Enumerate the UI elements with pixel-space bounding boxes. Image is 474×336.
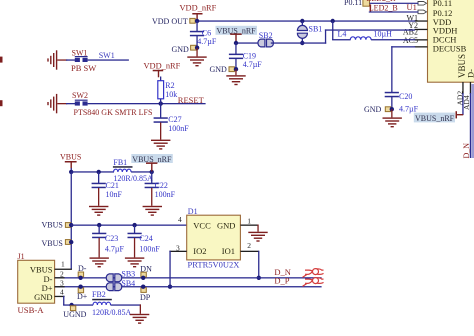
svg-text:4.7µF: 4.7µF <box>197 37 217 46</box>
wire gnd to SW1 <box>66 59 75 60</box>
ferrite bead FB1 core bar <box>113 166 133 168</box>
svg-text:R2: R2 <box>165 81 174 90</box>
ferrite bead FB1 coil <box>114 169 132 172</box>
ground (FB2) <box>130 314 149 324</box>
junction VBUS rail lower port <box>69 240 73 244</box>
junction VBUS_nRF C19 <box>234 41 238 45</box>
wire pin4 corner <box>63 296 64 306</box>
junction DP port <box>141 285 145 289</box>
svg-text:VCC: VCC <box>193 220 211 230</box>
ground (C6) <box>187 56 206 66</box>
highlight band right edge <box>471 84 474 158</box>
port GND (C19) pad <box>229 67 234 72</box>
power port VDD_nRF (R2) <box>144 61 181 77</box>
wire P0.11 <box>370 3 419 4</box>
switch SW1 <box>75 56 88 62</box>
capacitor C27 stem bottom <box>160 123 161 140</box>
D1 pin 3 wire <box>169 251 186 252</box>
pin VDD (W1) <box>415 20 428 21</box>
svg-text:SB3: SB3 <box>121 270 135 279</box>
J1 pin 4 wire <box>55 296 65 297</box>
svg-text:D-: D- <box>466 69 474 78</box>
svg-text:LED2_B: LED2_B <box>369 4 398 13</box>
ferrite bead FB2 core bar <box>92 299 112 301</box>
wire VDD main <box>196 20 415 21</box>
svg-text:GND: GND <box>217 220 235 230</box>
svg-text:4.7µF: 4.7µF <box>399 105 419 114</box>
capacitor C27 stem top <box>160 104 161 119</box>
ground stem (D1) <box>257 225 258 232</box>
svg-text:GND: GND <box>210 65 228 74</box>
junction D+ port <box>78 285 82 289</box>
svg-text:SB2: SB2 <box>259 31 273 40</box>
junction C22 <box>150 170 154 174</box>
capacitor C19 stem bottom <box>235 59 236 69</box>
svg-text:D+: D+ <box>77 292 88 301</box>
capacitor C23 <box>92 233 106 239</box>
wire gnd to SW2 <box>66 103 75 104</box>
capacitor C22 stem top <box>151 172 152 184</box>
svg-text:C23: C23 <box>105 234 118 243</box>
resistor R2 <box>158 81 164 99</box>
svg-text:IO1: IO1 <box>222 246 235 256</box>
svg-text:RESET: RESET <box>178 95 205 105</box>
capacitor C23 stem bottom <box>99 238 100 257</box>
svg-text:DECUSB: DECUSB <box>433 44 467 54</box>
capacitor C21 stem bottom <box>98 188 99 206</box>
ground left (SW2) <box>47 94 57 113</box>
ground stem (C6) <box>196 48 197 57</box>
wire FB1 to C22 <box>131 171 152 172</box>
svg-text:2: 2 <box>247 241 251 250</box>
port DP pad <box>141 288 146 293</box>
ground stem (C20) <box>391 109 392 117</box>
ground (C19) <box>226 75 245 85</box>
ground (C20) <box>383 117 402 127</box>
svg-text:C27: C27 <box>168 115 181 124</box>
port D+ pad <box>78 288 83 293</box>
power bar fragment <box>370 4 371 11</box>
edge mark SW2 <box>0 100 3 106</box>
port UGND pad <box>70 306 75 311</box>
capacitor C6 <box>190 31 204 37</box>
svg-text:PTS840 GK SMTR LFS: PTS840 GK SMTR LFS <box>74 108 153 117</box>
svg-text:100nF: 100nF <box>168 124 189 133</box>
wire P0.12 / LED2_B <box>369 11 419 12</box>
svg-text:120R/0.85A: 120R/0.85A <box>92 308 132 317</box>
svg-text:LED2_R: LED2_R <box>367 0 397 3</box>
pin VDDH (Y2) <box>415 29 428 30</box>
svg-text:P0.11: P0.11 <box>344 0 362 7</box>
J1 pin 3 stub <box>55 286 65 287</box>
svg-text:1: 1 <box>247 216 251 225</box>
J1 pin 3 wire / D_P <box>55 286 322 287</box>
capacitor C23 stem top <box>99 225 100 233</box>
svg-text:VDD_nRF: VDD_nRF <box>144 61 181 70</box>
svg-text:L4: L4 <box>338 30 347 39</box>
ground stem SW1 <box>57 59 67 60</box>
svg-text:FB1: FB1 <box>113 158 127 167</box>
capacitor C19 stem top <box>235 43 236 54</box>
capacitor C22 stem bottom <box>151 188 152 206</box>
power port VBUS_nRF (AD2) highlighted label <box>414 113 455 123</box>
svg-text:FB2: FB2 <box>92 290 106 299</box>
svg-text:4.7µF: 4.7µF <box>243 60 263 69</box>
D1 pin 2 wire <box>240 251 258 252</box>
wire DECUSB horizontal <box>391 46 415 47</box>
capacitor C24 stem top <box>134 225 135 233</box>
wire VBUS rail vertical <box>71 172 72 269</box>
svg-text:UGND: UGND <box>63 310 86 319</box>
wire L4 branch vertical <box>332 21 333 40</box>
wire SB2 to corner <box>271 42 326 43</box>
svg-text:10k: 10k <box>165 90 177 99</box>
svg-text:3: 3 <box>60 278 64 287</box>
ground (C23) <box>90 257 109 267</box>
junction VDD at SB1 <box>300 19 304 23</box>
svg-text:PB SW: PB SW <box>71 63 96 73</box>
J1 pin 2 wire / D_N <box>55 277 322 278</box>
wire SW1 net <box>88 59 129 60</box>
svg-text:100nF: 100nF <box>155 190 176 199</box>
port DN pad <box>141 272 146 277</box>
port VBUS lower pad <box>65 240 70 245</box>
power port VBUS <box>60 153 81 169</box>
pin P0.12 arrow <box>418 10 427 14</box>
J1 pin 2 stub <box>55 277 65 278</box>
svg-text:VDD OUT: VDD OUT <box>152 17 188 26</box>
ground left (SW1) <box>47 50 57 69</box>
power port VBUS_nRF (AD2) bar <box>456 111 458 118</box>
capacitor C20 <box>385 92 399 98</box>
wire FB2 right <box>111 304 142 305</box>
power port VDD_nRF (top) <box>180 3 217 21</box>
junction GND C19 <box>234 67 238 71</box>
port P0.11 pad <box>363 0 370 6</box>
ground (C22) <box>143 206 162 216</box>
junction GND C20 <box>390 107 394 111</box>
junction C21 <box>97 170 101 174</box>
svg-text:DP: DP <box>140 293 151 302</box>
svg-text:GND: GND <box>172 45 190 54</box>
svg-text:SB1: SB1 <box>309 24 323 33</box>
ground stem (C19) <box>235 69 236 75</box>
solder bridge SB3 <box>106 274 121 282</box>
svg-text:GND: GND <box>34 292 52 302</box>
capacitor C19 <box>229 54 243 60</box>
svg-text:120R/0.85A: 120R/0.85A <box>113 174 153 183</box>
svg-text:PRTR5V0U2X: PRTR5V0U2X <box>188 260 240 270</box>
wire AD4 (D- pin) down <box>470 93 471 158</box>
junction DN port <box>141 276 145 280</box>
wire corner up to VDDH <box>325 29 326 43</box>
junction IO1/D_N <box>257 276 261 280</box>
ground stem (FB2) <box>140 304 141 313</box>
capacitor C24 <box>128 233 142 239</box>
capacitor C20 stem bottom <box>391 97 392 109</box>
wire R2 bottom <box>160 99 161 104</box>
svg-text:SW2: SW2 <box>72 91 88 100</box>
solder bridge SB1 stem top <box>302 21 303 26</box>
diode D1 body <box>187 215 241 260</box>
wire pin4 to FB2 <box>63 304 93 305</box>
solder bridge SB1 <box>297 25 307 38</box>
pin P0.11 arrow <box>418 2 427 6</box>
junction IO2/D_P <box>168 285 172 289</box>
junction VDD at L4 branch <box>331 19 335 23</box>
capacitor C24 stem bottom <box>134 238 135 257</box>
junction VBUS rail upper port <box>69 223 73 227</box>
wire DECUSB down to C20 <box>391 46 392 92</box>
svg-text:100nF: 100nF <box>139 244 160 253</box>
wire AD2 (VBUS pin) down <box>462 93 463 115</box>
ground (D1) <box>248 232 267 242</box>
svg-text:VBUS_nRF: VBUS_nRF <box>415 114 455 123</box>
pin DECUSB (AC5) <box>415 46 428 47</box>
port GND (C20) pad <box>385 107 390 112</box>
svg-text:C22: C22 <box>155 181 168 190</box>
ferrite bead FB2 coil <box>93 302 111 305</box>
port D- pad <box>78 272 83 277</box>
IC U1 body (nRF52840, partially cut at top/right) <box>428 0 474 82</box>
junction VBUS rail top <box>69 170 73 174</box>
wire SW2 to RESET <box>88 103 206 104</box>
solder bridge SB1 stem bottom <box>302 38 303 43</box>
junction SB1 bottom <box>300 41 304 45</box>
svg-text:4: 4 <box>178 215 182 224</box>
ground (C21) <box>89 206 108 216</box>
power port VBUS_nRF (AD2) stem <box>456 114 463 115</box>
pin AD2 vertical <box>462 82 463 94</box>
wire L4 to DCCH <box>371 39 415 40</box>
power port VBUS_nRF (FB1) stem <box>151 162 152 171</box>
switch SW2 <box>75 100 88 106</box>
svg-text:IO2: IO2 <box>193 246 206 256</box>
port GND (C6) pad <box>191 45 196 50</box>
capacitor C6 stem bottom <box>196 36 197 48</box>
wire VBUS to FB1 <box>71 171 114 172</box>
pin AD4 vertical <box>470 82 471 94</box>
J1 pin 1 wire <box>55 269 72 270</box>
solder bridge SB4 <box>106 283 121 291</box>
svg-text:D1: D1 <box>188 207 198 216</box>
ground stem SW2 <box>57 103 67 104</box>
svg-text:C21: C21 <box>106 181 119 190</box>
differential pair directive D_N <box>303 269 324 278</box>
junction GND C6 <box>195 46 199 50</box>
wire to VDDH pin <box>325 29 415 30</box>
junction R2/C27 <box>159 101 163 105</box>
power port VBUS_nRF (FB1) highlighted label <box>131 154 173 164</box>
wire IO2 down to D_P <box>169 251 170 287</box>
junction D- port <box>78 276 82 280</box>
svg-text:USB-A: USB-A <box>18 305 45 315</box>
pin DCCH (AB2) <box>415 39 428 40</box>
svg-text:10nF: 10nF <box>106 190 123 199</box>
svg-text:2: 2 <box>60 269 64 278</box>
wire VBUS stem to rail <box>71 168 72 172</box>
svg-text:D_N: D_N <box>462 143 471 159</box>
junction C23 <box>97 223 101 227</box>
inductor L4 coil <box>350 37 371 40</box>
svg-text:10µH: 10µH <box>374 30 393 39</box>
svg-text:SB4: SB4 <box>121 279 135 288</box>
junction UGND <box>69 303 73 307</box>
svg-text:SW1: SW1 <box>72 48 88 57</box>
port VBUS upper pad <box>65 223 70 228</box>
svg-text:VBUS: VBUS <box>42 220 63 229</box>
differential pair directive D_P <box>303 278 324 287</box>
svg-text:VBUS: VBUS <box>30 264 53 274</box>
edge mark SW1 <box>0 57 3 63</box>
svg-text:VBUS: VBUS <box>42 239 63 248</box>
power port VBUS_nRF (C19) highlighted label <box>216 26 258 36</box>
capacitor C6 stem top <box>196 21 197 31</box>
wire VBUS row to D1 VCC <box>71 225 187 226</box>
power port VBUS_nRF (FB1) bar <box>146 162 157 164</box>
ground (C24) <box>125 257 144 267</box>
power port VBUS_nRF (C19) stem <box>235 33 236 43</box>
svg-text:1: 1 <box>61 259 65 268</box>
solder bridge SB2 <box>258 39 273 47</box>
wire VBUS_nRF to SB2 <box>236 42 261 43</box>
wire IO1 down to D_N <box>258 251 259 279</box>
svg-text:VDD_nRF: VDD_nRF <box>180 3 217 12</box>
capacitor C22 <box>145 183 159 189</box>
svg-text:SW1: SW1 <box>99 51 115 60</box>
wire VDD_nRF to R2 <box>160 77 161 82</box>
capacitor C21 stem top <box>98 172 99 184</box>
D1 pin 1 wire <box>240 225 258 226</box>
capacitor C21 <box>92 183 106 189</box>
junction VDD at C6 <box>195 19 199 23</box>
svg-text:4.7µF: 4.7µF <box>105 244 125 253</box>
port VDD OUT pad <box>190 18 195 23</box>
power port VBUS_nRF (C19) bar <box>230 33 241 35</box>
svg-text:GND: GND <box>364 105 382 114</box>
svg-text:C20: C20 <box>399 92 412 101</box>
junction C24 <box>132 223 136 227</box>
ground (C27) <box>151 140 170 150</box>
connector J1 body <box>18 260 55 303</box>
svg-text:P0.11: P0.11 <box>433 0 452 8</box>
svg-text:4: 4 <box>60 287 64 296</box>
wire L4 left <box>332 39 351 40</box>
svg-text:D_P: D_P <box>274 276 289 286</box>
svg-text:C24: C24 <box>139 234 152 243</box>
svg-text:VBUS: VBUS <box>60 153 81 162</box>
capacitor C27 <box>154 117 168 123</box>
